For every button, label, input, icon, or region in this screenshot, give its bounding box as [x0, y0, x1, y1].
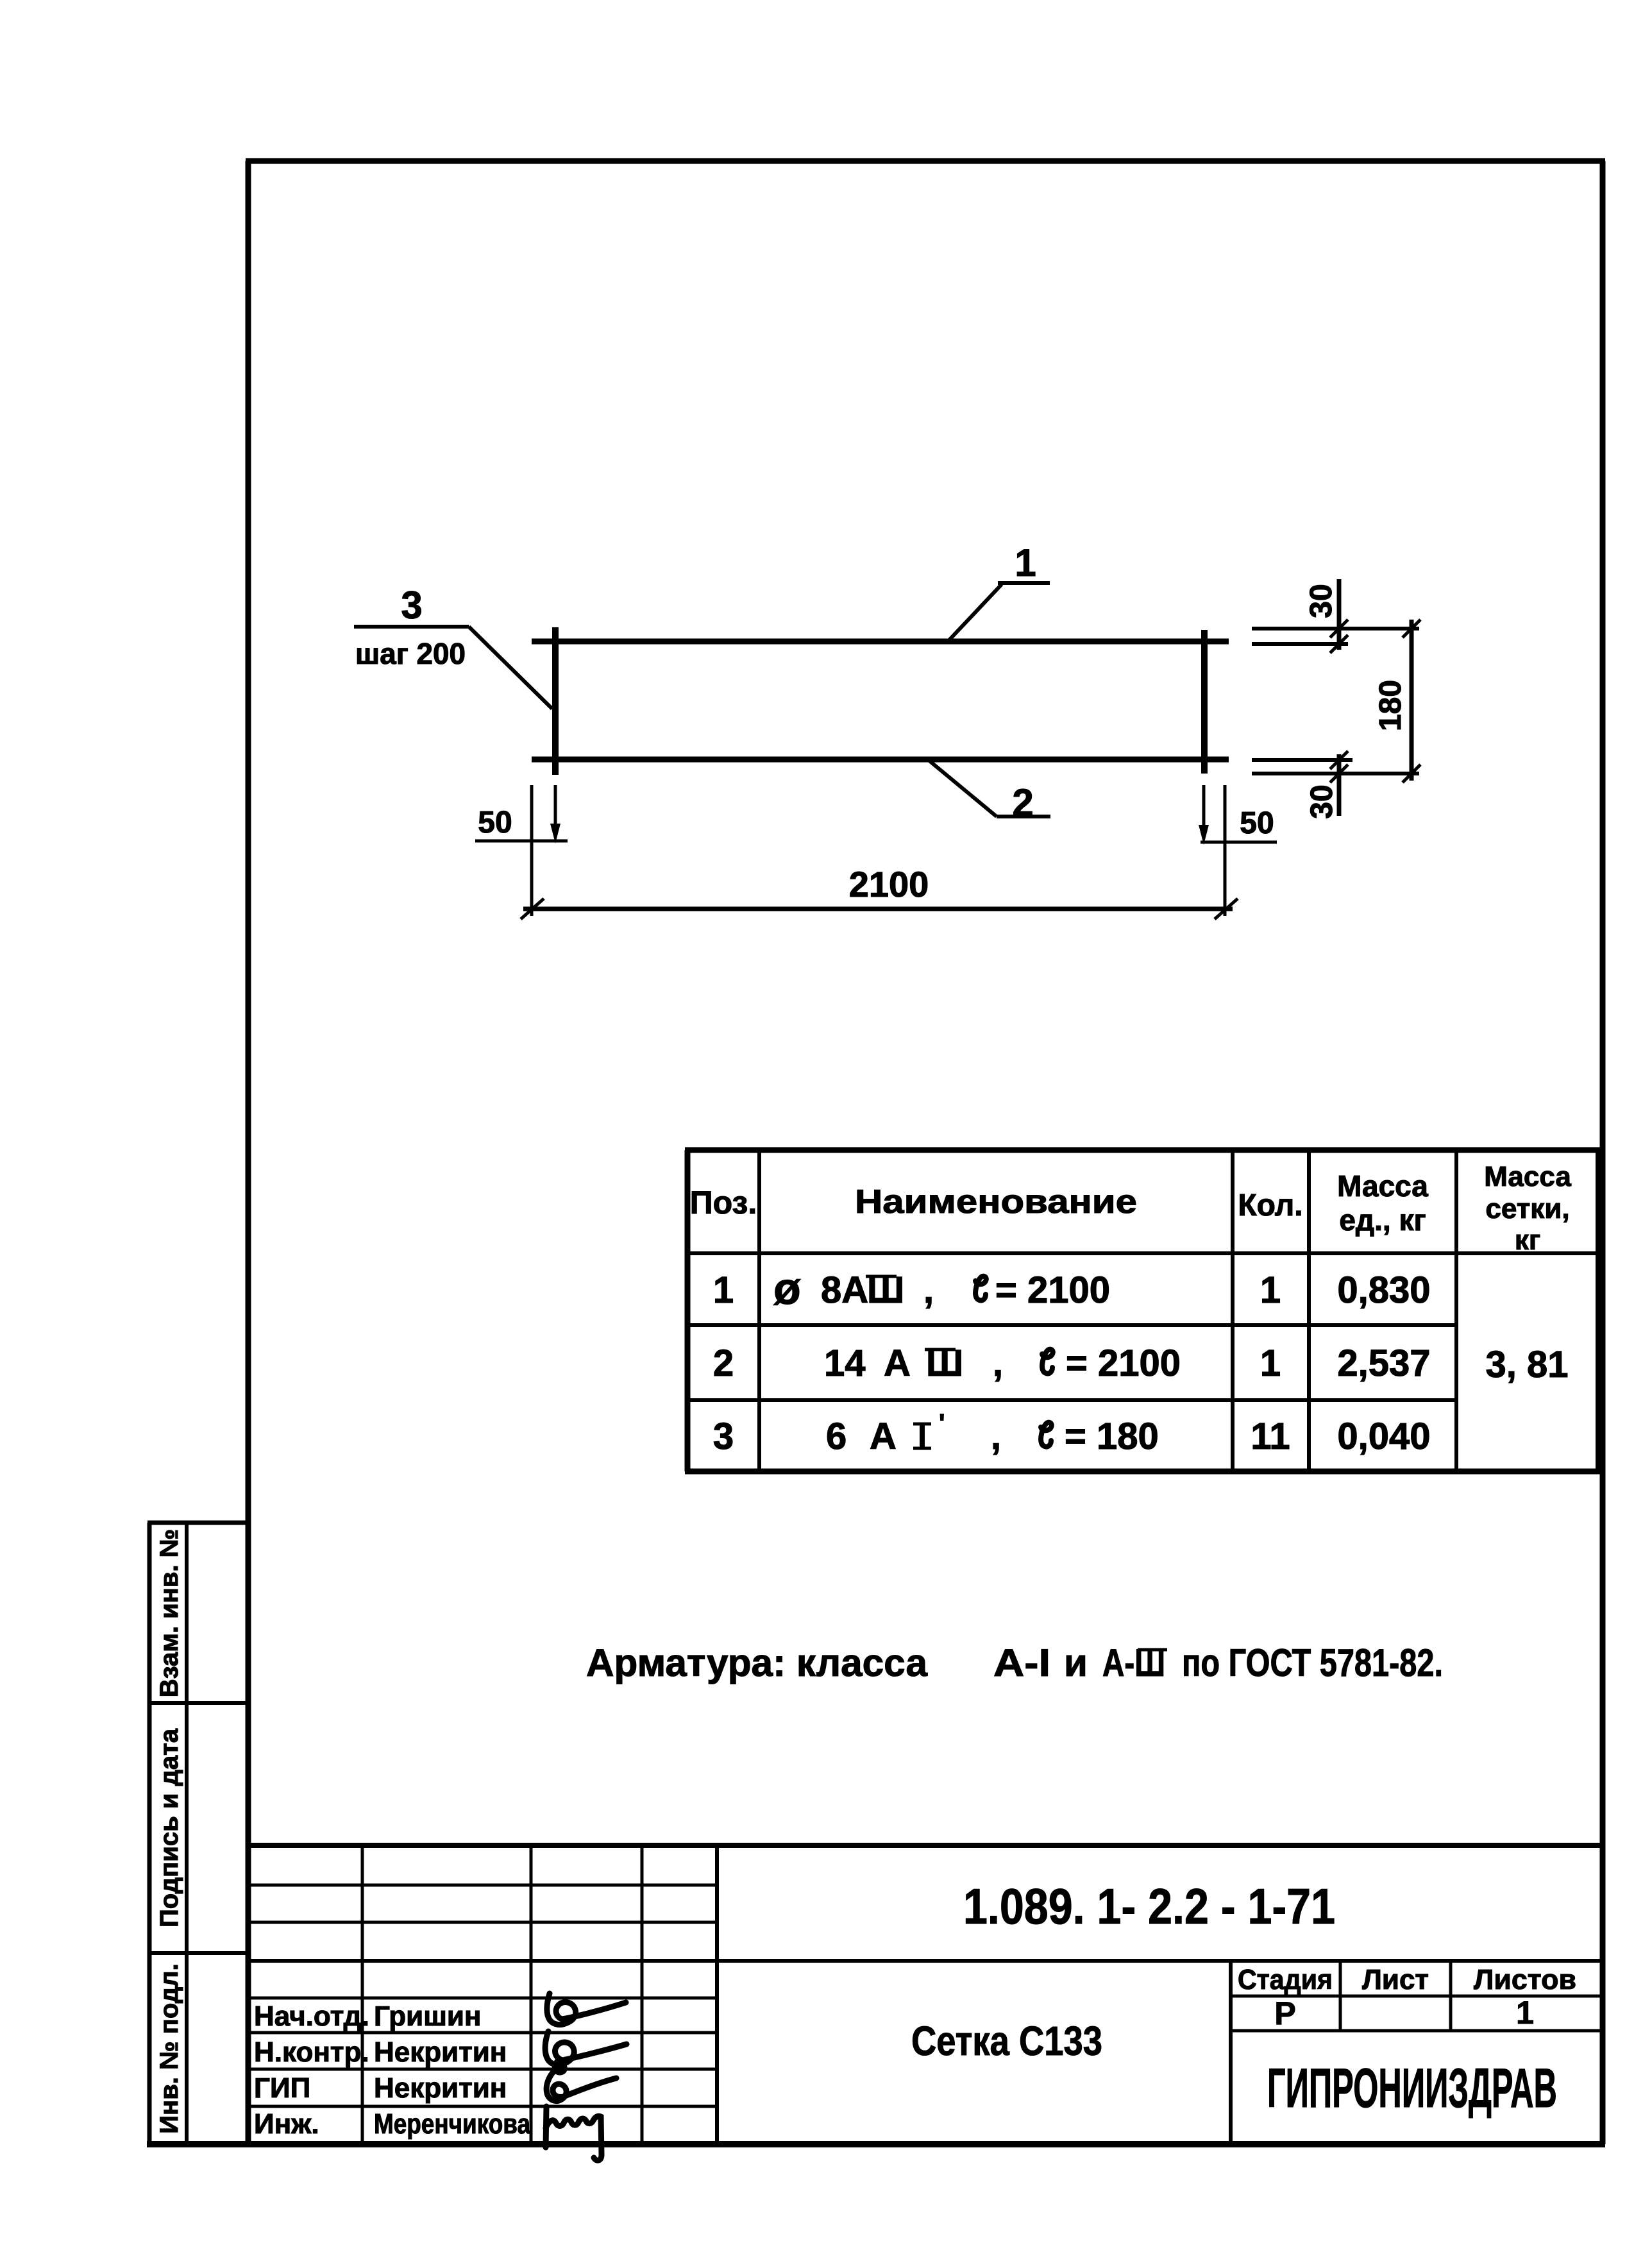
svg-text:ГИПРОНИИЗДРАВ: ГИПРОНИИЗДРАВ	[1267, 2058, 1557, 2119]
svg-text:А-Ш: А-Ш	[1102, 1641, 1165, 1684]
svg-text:8А: 8А	[821, 1269, 868, 1311]
svg-text:= 180: = 180	[1065, 1416, 1159, 1457]
svg-text:2: 2	[713, 1342, 734, 1384]
svg-text:кг: кг	[1515, 1224, 1540, 1256]
svg-text:Наименование: Наименование	[855, 1183, 1137, 1221]
svg-text:Некритин: Некритин	[374, 2072, 507, 2104]
svg-text:0,830: 0,830	[1337, 1269, 1430, 1311]
svg-text:50: 50	[1240, 806, 1274, 840]
signature Меренчикова	[546, 2106, 602, 2160]
svg-text:1.089. 1- 2.2 - 1-71: 1.089. 1- 2.2 - 1-71	[963, 1878, 1335, 1934]
svg-text:3: 3	[401, 584, 422, 627]
table row 3	[713, 1409, 1431, 1457]
svg-text:2,537: 2,537	[1337, 1342, 1430, 1384]
svg-text:180: 180	[1374, 680, 1408, 731]
svg-text:30: 30	[1304, 584, 1338, 618]
signature roles and names	[254, 2001, 530, 2140]
svg-text:Подпись и дата: Подпись и дата	[155, 1728, 183, 1927]
leader 1	[948, 541, 1050, 641]
dimension 50 right	[1199, 785, 1277, 916]
svg-text:3, 81: 3, 81	[1486, 1344, 1569, 1385]
svg-text:по ГОСТ 5781-82.: по ГОСТ 5781-82.	[1182, 1641, 1443, 1684]
svg-text:50: 50	[478, 806, 512, 840]
svg-text:Арматура: класса: Арматура: класса	[586, 1641, 928, 1684]
svg-text:Инв. № подл.: Инв. № подл.	[155, 1963, 183, 2133]
svg-text:Н.контр.: Н.контр.	[254, 2036, 369, 2068]
svg-text:Масса: Масса	[1484, 1161, 1571, 1192]
dimension 30 bottom	[1305, 751, 1348, 819]
signature Некритин (ГИП)	[546, 2070, 616, 2101]
svg-text:Лист: Лист	[1362, 1964, 1429, 1995]
svg-text:А: А	[870, 1416, 897, 1457]
dimension 30 top	[1304, 579, 1348, 653]
svg-text:шаг 200: шаг 200	[355, 637, 466, 670]
svg-text:3: 3	[713, 1416, 734, 1457]
longitudinal bar 2 (bottom)	[532, 757, 1229, 763]
svg-text:ГИП: ГИП	[254, 2072, 310, 2104]
svg-text:1: 1	[1260, 1342, 1281, 1384]
svg-text:Кол.: Кол.	[1238, 1189, 1302, 1223]
svg-text:Гришин: Гришин	[374, 2001, 482, 2032]
longitudinal bar 1 (top)	[532, 639, 1229, 645]
svg-text:и: и	[1064, 1641, 1088, 1684]
svg-text:Нач.отд.: Нач.отд.	[254, 2001, 369, 2032]
table row 2	[713, 1342, 1569, 1385]
svg-text:А: А	[884, 1342, 911, 1384]
svg-text:сетки,: сетки,	[1485, 1193, 1569, 1224]
svg-text:2100: 2100	[849, 864, 929, 904]
svg-text:Листов: Листов	[1474, 1964, 1576, 1995]
svg-text:Поз.: Поз.	[690, 1185, 757, 1221]
svg-text:': '	[939, 1409, 945, 1437]
svg-text:Инж.: Инж.	[254, 2108, 319, 2140]
dimension 180	[1374, 620, 1420, 783]
leader 2	[929, 761, 1050, 824]
extension lines right	[1252, 629, 1419, 774]
svg-text:А-I: А-I	[993, 1641, 1050, 1684]
signature squiggles	[545, 1993, 627, 2160]
signature Гришин	[547, 1993, 626, 2025]
svg-text:1: 1	[1516, 1995, 1534, 2031]
signature Некритин (Н.контр.)	[545, 2031, 627, 2072]
cross bar 3 (left)	[552, 627, 559, 775]
svg-text:Масса: Масса	[1337, 1169, 1428, 1203]
svg-text:6: 6	[826, 1416, 847, 1457]
table header texts	[690, 1161, 1572, 1256]
table row 1	[713, 1264, 1431, 1314]
svg-text:= 2100: = 2100	[995, 1269, 1110, 1311]
margin column boxes	[147, 1523, 248, 2144]
svg-text:Взам. инв. №: Взам. инв. №	[155, 1529, 183, 1697]
SPEC TABLE GRID	[685, 1150, 1601, 1471]
svg-text:0,040: 0,040	[1337, 1416, 1430, 1457]
dimension 50 left	[475, 785, 568, 916]
svg-text:,: ,	[993, 1342, 1003, 1384]
cross bar 3 (right)	[1201, 630, 1208, 774]
svg-text:Некритин: Некритин	[374, 2036, 507, 2068]
svg-text:= 2100: = 2100	[1066, 1342, 1181, 1384]
svg-text:Сетка С133: Сетка С133	[911, 2018, 1102, 2064]
svg-text:1: 1	[1260, 1269, 1281, 1311]
svg-text:Р: Р	[1274, 1995, 1295, 2031]
leader 3	[354, 584, 552, 709]
sheet frame	[147, 161, 1605, 2144]
svg-text:ø: ø	[773, 1264, 801, 1314]
svg-text:30: 30	[1305, 784, 1339, 818]
dimension 2100	[521, 864, 1238, 919]
TITLE BLOCK	[246, 1845, 1603, 2144]
svg-text:Стадия: Стадия	[1238, 1964, 1333, 1995]
svg-text:,: ,	[991, 1416, 1001, 1457]
svg-text:14: 14	[824, 1342, 866, 1384]
svg-text:11: 11	[1251, 1416, 1290, 1457]
note: reinforcement classes	[586, 1641, 1443, 1684]
svg-text:ед., кг: ед., кг	[1339, 1203, 1426, 1237]
svg-text:Меренчикова: Меренчикова	[374, 2108, 530, 2140]
svg-text:,: ,	[923, 1269, 934, 1311]
svg-text:1: 1	[713, 1269, 734, 1311]
svg-text:1: 1	[1015, 541, 1036, 584]
